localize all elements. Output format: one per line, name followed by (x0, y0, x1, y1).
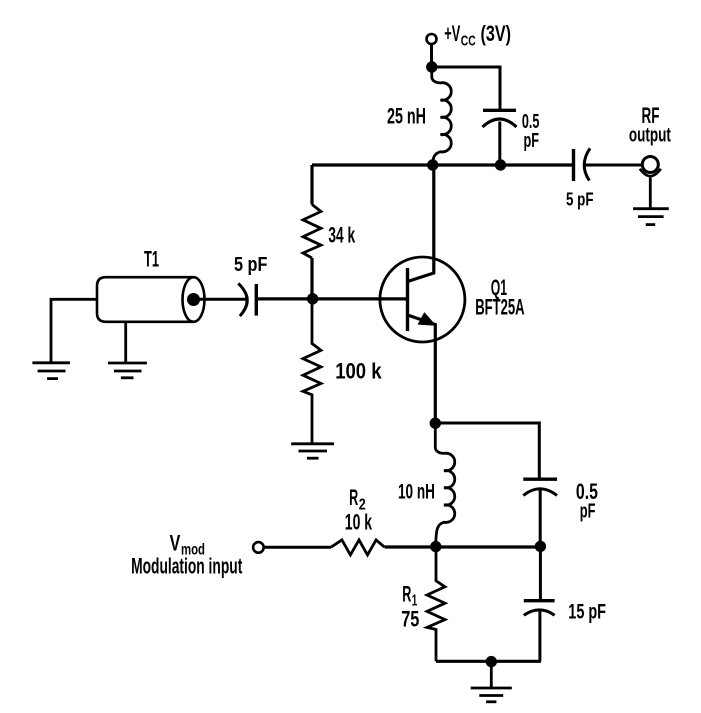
svg-text:(3V): (3V) (481, 21, 512, 46)
node H junction dot (486, 656, 497, 667)
wire R2 to node G and node F (385, 545, 541, 548)
node D (base) junction dot (307, 293, 318, 304)
svg-text:Modulation input: Modulation input (131, 554, 243, 579)
wire Vmod to R2 (264, 546, 331, 549)
node G junction dot (430, 541, 441, 552)
wire emitter node to C4 branch (435, 423, 539, 478)
capacitor C2 5 pF curved plate (584, 148, 590, 180)
wire VCC to node A (430, 44, 433, 67)
svg-text:10 k: 10 k (345, 509, 373, 534)
wire T1 bottom lead (124, 322, 127, 362)
node B junction dot (495, 159, 506, 170)
wire main collector node line (312, 163, 574, 166)
transducer T1 body (97, 277, 205, 322)
svg-text:34 k: 34 k (328, 223, 355, 248)
svg-text:25 nH: 25 nH (387, 104, 426, 129)
svg-text:pF: pF (580, 501, 596, 523)
svg-text:75: 75 (401, 607, 419, 632)
wire base node line (256, 297, 406, 300)
transistor Q1 emitter lead (408, 315, 436, 423)
svg-text:T1: T1 (144, 246, 159, 271)
wire 34k branch top corner (310, 165, 313, 205)
svg-text:+V: +V (444, 21, 460, 46)
wire node H to ground (490, 662, 493, 687)
capacitor C2 5 pF left plate (572, 149, 575, 181)
ground (RF output) (633, 209, 669, 225)
svg-text:100 k: 100 k (335, 359, 382, 384)
wire bottom rail (436, 660, 541, 663)
ground (bottom) (471, 688, 512, 702)
wire T1 to C3 (194, 298, 248, 301)
ground (100 k) (291, 444, 334, 458)
svg-text:5 pF: 5 pF (566, 190, 594, 210)
capacitor C4 0.5 pF top plate (523, 478, 557, 481)
svg-text:pF: pF (524, 130, 540, 152)
wire C2 to RF connector (584, 164, 642, 167)
capacitor C1 0.5 pF top plate (483, 109, 516, 112)
label RF output (629, 103, 671, 147)
svg-text:R: R (402, 582, 411, 607)
capacitor C1 0.5 pF curved plate (483, 119, 517, 127)
node C junction dot (427, 159, 438, 170)
svg-text:15 pF: 15 pF (568, 601, 606, 624)
svg-text:CC: CC (461, 33, 476, 50)
resistor R1 75 (427, 547, 445, 661)
label 0.5 pF (C1) (522, 111, 540, 152)
transistor Q1 circle (380, 257, 465, 342)
capacitor C5 15 pF top plate (524, 599, 555, 602)
capacitor C3 5 pF right plate (255, 284, 258, 316)
VCC terminal circle (427, 34, 437, 44)
inductor L1 25 nH (432, 67, 451, 165)
resistor R4 100 k (303, 299, 321, 443)
wire C1 to node B (498, 122, 501, 166)
transistor Q1 collector lead (408, 165, 434, 282)
wire 34k to base node (310, 258, 313, 299)
svg-text:BFT25A: BFT25A (475, 295, 524, 320)
label 0.5 pF (C4) (576, 479, 598, 523)
svg-text:5 pF: 5 pF (234, 254, 267, 276)
Vmod input terminal (253, 542, 264, 553)
wire node F to C5 (539, 546, 542, 599)
T1 terminal dot (187, 293, 200, 306)
node F junction dot (535, 541, 546, 552)
wire C5 to bottom rail (538, 610, 541, 661)
wire node A to C1 branch (432, 67, 500, 109)
capacitor C5 15 pF curved plate (524, 610, 555, 615)
label R1 (402, 582, 417, 610)
transistor Q1 base bar (406, 268, 409, 331)
ground (T1 bottom) (108, 363, 147, 378)
node E (emitter) junction dot (430, 418, 441, 429)
RF output connector J1 (640, 157, 661, 177)
svg-text:R: R (349, 485, 358, 510)
resistor R2 10 k (331, 540, 385, 555)
svg-text:V: V (170, 531, 181, 556)
label +VCC (3V) (444, 21, 511, 50)
transistor Q1 emitter arrow (418, 312, 437, 326)
resistor R3 34 k (303, 205, 321, 259)
wire T1 left lead (51, 299, 97, 362)
wire C4 to node F (539, 490, 542, 546)
label R2 (349, 485, 366, 514)
label Vmod (170, 531, 205, 559)
capacitor C4 0.5 pF curved plate (523, 489, 557, 496)
node A junction dot (426, 61, 437, 72)
svg-text:10 nH: 10 nH (398, 481, 435, 504)
capacitor C3 5 pF curved plate (238, 283, 247, 316)
inductor L2 10 nH (435, 423, 454, 546)
ground (T1 left) (32, 363, 70, 379)
svg-text:output: output (629, 125, 671, 147)
wire RF connector to ground (649, 178, 652, 209)
